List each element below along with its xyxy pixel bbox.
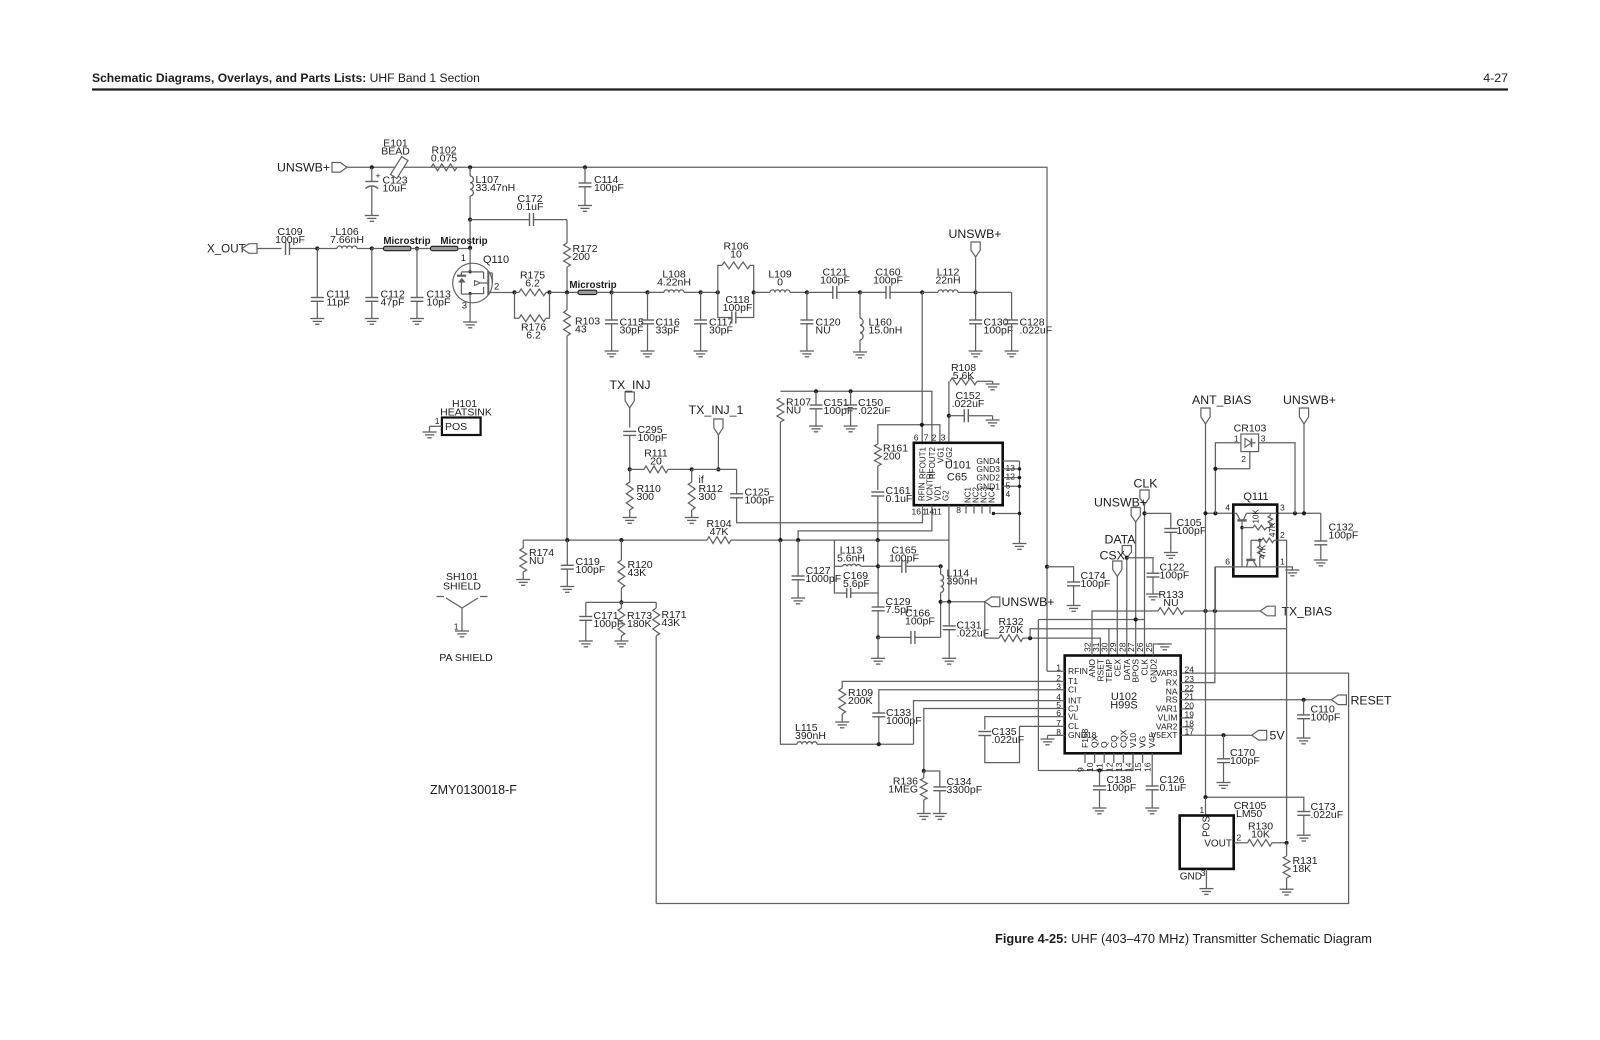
wire U102 pin1 connect <box>1047 670 1065 672</box>
svg-text:14: 14 <box>1124 762 1134 772</box>
svg-text:1000pF: 1000pF <box>886 715 922 727</box>
header text <box>92 71 1508 85</box>
svg-text:1: 1 <box>461 253 466 264</box>
wire bias rail <box>523 539 949 541</box>
svg-text:QX: QX <box>1090 735 1100 748</box>
junction C130/UNSWB+ <box>974 290 978 294</box>
svg-text:100pF: 100pF <box>824 405 854 417</box>
ground C152 <box>986 416 1000 426</box>
capacitor C161 <box>871 485 912 540</box>
resistor R106 (parallel top) <box>718 241 754 293</box>
net flag TX_BIAS <box>1260 605 1332 619</box>
ferrite bead E101 <box>381 138 410 179</box>
svg-text:9: 9 <box>1076 767 1086 772</box>
svg-text:0.075: 0.075 <box>431 152 457 164</box>
svg-text:5.6nH: 5.6nH <box>837 552 865 564</box>
junction R106/C118 right <box>752 290 756 294</box>
capacitor C138 <box>1093 771 1137 814</box>
junction rail/C161 <box>876 538 880 542</box>
wire V10 feed <box>1038 620 1133 771</box>
svg-text:47K: 47K <box>1259 544 1268 559</box>
resistor R102 <box>431 145 457 171</box>
svg-text:3300pF: 3300pF <box>947 784 983 796</box>
svg-text:VOUT: VOUT <box>1204 839 1232 850</box>
IC U101 C65 <box>912 433 1027 550</box>
svg-text:Schematic Diagrams, Overlays,: Schematic Diagrams, Overlays, and Parts … <box>92 71 480 85</box>
inductor L107 <box>470 167 515 219</box>
svg-text:5V: 5V <box>1270 729 1286 743</box>
resistor R136 <box>888 771 931 819</box>
junction CR103 left leg <box>1213 511 1217 515</box>
svg-text:NU: NU <box>529 555 544 567</box>
wire C160-L112 <box>922 291 938 293</box>
capacitor C172 <box>470 193 567 226</box>
svg-text:10: 10 <box>730 248 742 260</box>
wire C130-C128 <box>976 291 1012 293</box>
junction C174 <box>1045 565 1049 569</box>
wire ANT_BIAS/C173 node <box>1206 797 1304 811</box>
capacitor C127 <box>791 540 841 604</box>
capacitor C295 <box>623 424 667 469</box>
wire RX line <box>1181 567 1215 683</box>
wire TEMP drop <box>1108 629 1110 656</box>
capacitor C120 <box>800 292 841 356</box>
junction C113 <box>411 246 431 250</box>
svg-text:100pF: 100pF <box>889 552 919 564</box>
wire U102 pins 20 19 18 stubs <box>1181 709 1193 727</box>
junction C105 <box>1142 511 1146 515</box>
svg-text:UNSWB+: UNSWB+ <box>277 161 330 175</box>
junction rail/R120 <box>619 538 623 542</box>
junction C129/C166 <box>876 635 880 639</box>
svg-text:100pF: 100pF <box>1081 578 1111 590</box>
svg-text:POS: POS <box>445 421 467 433</box>
svg-text:DATA: DATA <box>1105 533 1137 547</box>
svg-text:30pF: 30pF <box>620 324 644 336</box>
svg-text:18K: 18K <box>1293 863 1312 875</box>
junction C131 top <box>947 600 951 604</box>
wire temp sense line <box>1030 629 1287 638</box>
svg-text:1: 1 <box>1280 557 1285 567</box>
svg-text:X_OUT: X_OUT <box>207 243 246 256</box>
svg-text:12: 12 <box>1104 762 1114 772</box>
inductor L115 <box>795 722 914 744</box>
wire BPOS rail <box>1038 619 1144 621</box>
svg-text:25: 25 <box>1144 642 1154 652</box>
net flag UNSWB+ (ctrl) <box>1094 496 1147 656</box>
junction R136 <box>922 769 926 773</box>
capacitor C166 <box>878 608 941 644</box>
svg-text:10pF: 10pF <box>427 296 451 308</box>
resistor R104 <box>706 518 731 544</box>
resistor R161 <box>874 443 908 491</box>
resistor R112 <box>685 469 723 523</box>
wire C117 to R106 node <box>701 291 718 293</box>
junction CR103 right leg <box>1293 511 1297 515</box>
resistor R175 <box>515 270 550 296</box>
svg-text:0.1uF: 0.1uF <box>517 201 544 213</box>
svg-text:43K: 43K <box>628 567 647 579</box>
capacitor C123 <box>365 167 408 221</box>
junction R102/L107 <box>468 165 472 169</box>
junction R106/C118 left <box>716 290 720 294</box>
svg-text:100pF: 100pF <box>576 564 606 576</box>
svg-text:180K: 180K <box>627 618 652 630</box>
inductor L109 <box>768 269 807 293</box>
IC U102 H99S <box>1056 642 1194 772</box>
svg-text:100pF: 100pF <box>1230 755 1260 767</box>
svg-text:3: 3 <box>941 433 946 443</box>
capacitor C173 <box>1297 801 1343 841</box>
svg-text:2: 2 <box>932 433 937 443</box>
svg-text:LM50: LM50 <box>1236 808 1262 820</box>
svg-text:200K: 200K <box>848 695 873 707</box>
svg-text:33.47nH: 33.47nH <box>476 182 516 194</box>
capacitor C116 <box>641 292 680 356</box>
svg-text:VG: VG <box>1138 736 1148 748</box>
svg-text:GND: GND <box>1180 872 1202 883</box>
svg-text:Figure 4-25: UHF (403–470 MHz): Figure 4-25: UHF (403–470 MHz) Transmitt… <box>995 931 1372 946</box>
wire Q111 pin6 <box>1215 567 1233 611</box>
capacitor C128 <box>1005 292 1053 356</box>
wire CI line <box>879 690 1065 713</box>
svg-text:C65: C65 <box>947 472 967 484</box>
svg-text:29: 29 <box>1108 642 1118 652</box>
capacitor C135 <box>978 726 1064 763</box>
svg-text:390nH: 390nH <box>795 730 826 742</box>
svg-text:VG2: VG2 <box>945 446 954 463</box>
junction CR103 pin2 <box>1213 467 1217 471</box>
junction C120 <box>805 290 809 294</box>
junction L107/C172 <box>468 218 472 222</box>
junction TX_INJ_1 <box>716 467 720 471</box>
capacitor C122 <box>1127 558 1189 600</box>
svg-text:7.66nH: 7.66nH <box>330 234 364 246</box>
wire U102 pin2 stub <box>1055 680 1065 682</box>
wire L107 to Q110 gate <box>469 220 471 248</box>
capacitor C132 <box>1314 513 1358 566</box>
junction C116 <box>645 290 649 294</box>
junction C152 <box>947 414 951 418</box>
svg-text:270K: 270K <box>999 624 1024 636</box>
junction Q110 gate node <box>468 246 472 250</box>
capacitor C150 <box>844 391 891 432</box>
capacitor C160 <box>873 267 922 299</box>
drawing number ZMY0130018-F <box>430 783 517 797</box>
capacitor C151 <box>809 391 853 432</box>
capacitor C171 <box>579 602 623 646</box>
capacitor C113 <box>410 249 451 325</box>
junction TX_BIAS/Q111 <box>1213 609 1217 613</box>
svg-text:200: 200 <box>573 251 591 263</box>
wire microstrip 2 to Q110 <box>458 248 470 250</box>
svg-text:300: 300 <box>637 491 655 503</box>
svg-text:30pF: 30pF <box>709 324 733 336</box>
svg-text:+: + <box>375 171 380 181</box>
net flag CSX <box>1100 549 1125 656</box>
junction C150 <box>849 389 853 393</box>
wire V5EXT to 5V <box>1181 734 1252 736</box>
svg-text:1: 1 <box>1234 434 1239 444</box>
svg-text:100pF: 100pF <box>638 432 668 444</box>
net flag UNSWB+ (right) <box>1283 393 1336 513</box>
svg-text:47pF: 47pF <box>381 296 405 308</box>
svg-text:Microstrip: Microstrip <box>440 236 487 247</box>
resistor R107 <box>777 397 811 541</box>
svg-text:10K: 10K <box>1251 828 1270 840</box>
svg-text:1: 1 <box>454 622 459 632</box>
svg-text:100pF: 100pF <box>1311 711 1341 723</box>
svg-text:CEX: CEX <box>1112 659 1122 677</box>
capacitor C114 <box>578 167 624 211</box>
svg-text:PA SHIELD: PA SHIELD <box>439 652 493 664</box>
capacitor C126 <box>1145 763 1186 814</box>
resistor R130 <box>1248 821 1287 847</box>
wire C120-C121 <box>807 291 833 293</box>
svg-text:5.6pF: 5.6pF <box>843 578 870 590</box>
svg-text:SHIELD: SHIELD <box>443 581 481 593</box>
wire VL line <box>985 717 1065 730</box>
wire C111 to L106 <box>317 248 337 250</box>
IC CR105 LM50 <box>1180 800 1267 883</box>
svg-text:20: 20 <box>650 455 662 467</box>
svg-text:TX_INJ_1: TX_INJ_1 <box>689 403 744 417</box>
svg-text:10uF: 10uF <box>383 182 407 194</box>
svg-text:43: 43 <box>575 323 587 335</box>
resistor R131 <box>1280 843 1318 895</box>
svg-text:UNSWB+: UNSWB+ <box>1283 393 1336 407</box>
svg-text:RFIN: RFIN <box>1068 666 1088 676</box>
wire Q110 drain out <box>492 292 514 294</box>
junction R175 left <box>512 290 516 294</box>
svg-text:NU: NU <box>1163 597 1178 609</box>
capacitor C133 <box>872 707 921 744</box>
svg-text:100pF: 100pF <box>984 324 1014 336</box>
junction C170 <box>1221 733 1225 737</box>
junction C122 <box>1125 556 1129 560</box>
svg-text:100pF: 100pF <box>1177 525 1207 537</box>
resistor R133 <box>1158 589 1260 614</box>
wire CR105 VOUT <box>1234 833 1248 843</box>
inductor L113 <box>834 545 878 567</box>
header rule <box>92 88 1508 90</box>
ground R108 <box>986 381 1000 390</box>
wire Q111 pin1 ground <box>1277 567 1299 576</box>
svg-text:VL: VL <box>1068 711 1079 721</box>
wire RS to RESET <box>1181 699 1332 701</box>
transistor array Q111 <box>1225 491 1285 576</box>
wire bias rail Q111 <box>1206 512 1321 514</box>
svg-text:VAR3: VAR3 <box>1156 668 1178 678</box>
svg-text:NU: NU <box>816 324 831 336</box>
svg-text:.022uF: .022uF <box>952 398 985 410</box>
capacitor C105 <box>1145 513 1207 558</box>
ground C166 left <box>871 637 885 664</box>
svg-text:4.22nH: 4.22nH <box>657 276 691 288</box>
svg-text:100pF: 100pF <box>820 274 850 286</box>
junction BPOS <box>1134 617 1138 621</box>
svg-text:.022uF: .022uF <box>858 405 891 417</box>
svg-text:.022uF: .022uF <box>992 734 1025 746</box>
wire R175 to microstrip 3 <box>550 291 579 293</box>
wire R111 node to C125 <box>692 468 737 470</box>
svg-text:2: 2 <box>494 282 499 293</box>
wire CR105 pin3 ground <box>1199 869 1213 895</box>
junction R161 top crossing <box>920 423 924 427</box>
svg-text:GND2: GND2 <box>1148 659 1158 683</box>
resistor R108 <box>949 362 993 443</box>
svg-text:3: 3 <box>1261 434 1266 444</box>
diode CR103 <box>1234 423 1267 465</box>
svg-text:F168: F168 <box>1080 728 1090 748</box>
svg-text:TX_BIAS: TX_BIAS <box>1282 605 1333 619</box>
svg-text:CQ: CQ <box>1109 735 1119 748</box>
svg-text:16: 16 <box>1143 762 1153 772</box>
wire INT riser <box>914 701 1065 745</box>
microstrip 2 <box>431 236 488 251</box>
svg-text:15: 15 <box>1133 762 1143 772</box>
svg-text:100pF: 100pF <box>594 182 624 194</box>
resistor R172 <box>564 220 598 293</box>
svg-text:11: 11 <box>933 507 942 517</box>
svg-text:33pF: 33pF <box>656 324 680 336</box>
net flag UNSWB+ (mid) <box>985 595 1055 609</box>
inductor L106 <box>330 226 372 249</box>
svg-text:V10: V10 <box>1128 733 1138 748</box>
svg-text:NU: NU <box>786 404 801 416</box>
svg-text:POS: POS <box>1202 816 1213 837</box>
capacitor C125 <box>730 469 774 506</box>
svg-text:3: 3 <box>462 301 467 312</box>
svg-text:10: 10 <box>1085 762 1095 772</box>
wire U102 pin22 stub <box>1181 691 1193 693</box>
inductor L108 <box>657 269 701 293</box>
resistor R176 (parallel) <box>515 292 550 341</box>
svg-text:2: 2 <box>1241 454 1246 464</box>
junction ANT_BIAS rail <box>1203 511 1207 515</box>
svg-text:0.1uF: 0.1uF <box>886 493 913 505</box>
svg-text:CQX: CQX <box>1118 729 1128 748</box>
capacitor C109 <box>275 226 317 255</box>
resistor R174 <box>516 540 554 585</box>
svg-text:100pF: 100pF <box>723 302 753 314</box>
net flag UNSWB+ (top left) <box>277 161 372 175</box>
svg-text:Q110: Q110 <box>483 254 509 266</box>
svg-text:.022uF: .022uF <box>1020 324 1053 336</box>
svg-text:4: 4 <box>1006 489 1011 499</box>
svg-text:47K: 47K <box>1268 522 1277 537</box>
inductor L114 <box>941 566 978 602</box>
transistor Q110 <box>453 248 509 312</box>
junction C112 <box>370 246 374 250</box>
wire R132 to RSET <box>1030 638 1100 655</box>
junction R112 top <box>690 467 694 471</box>
svg-text:2: 2 <box>1237 833 1242 843</box>
capacitor C170 <box>1217 735 1260 788</box>
junction rail/R103 <box>565 538 569 542</box>
shield SH101 <box>437 571 494 664</box>
net flag X_OUT <box>207 243 282 256</box>
capacitor C117 <box>694 292 734 356</box>
resistor R110 <box>623 469 661 523</box>
svg-text:10K: 10K <box>1252 509 1261 524</box>
junction C138 <box>1097 768 1101 772</box>
net flag ANT_BIAS <box>1192 393 1251 797</box>
microstrip 1 <box>383 236 430 251</box>
svg-text:0: 0 <box>777 276 783 288</box>
svg-text:CLK: CLK <box>1134 477 1159 491</box>
junction L114 top <box>939 564 943 568</box>
junction C111 <box>315 246 319 250</box>
junction rail/R107 <box>778 538 782 542</box>
svg-text:11pF: 11pF <box>327 296 350 308</box>
svg-text:6.2: 6.2 <box>525 277 540 289</box>
capacitor C111 <box>310 249 350 325</box>
svg-text:100pF: 100pF <box>1160 569 1190 581</box>
wire L113 loop <box>834 540 878 593</box>
junction L113 right <box>876 564 880 568</box>
wire C115-C116 <box>612 291 648 293</box>
net flag TX_INJ_1 <box>689 403 744 469</box>
svg-text:1MEG: 1MEG <box>888 783 918 795</box>
junction R172/R103 node <box>565 290 569 294</box>
svg-text:NC4: NC4 <box>988 486 997 503</box>
svg-text:100pF: 100pF <box>275 234 305 246</box>
net flag UNSWB+ (above L112) <box>949 227 1002 292</box>
svg-text:Microstrip: Microstrip <box>383 236 430 247</box>
capacitor C165 <box>878 545 941 573</box>
svg-text:16: 16 <box>912 507 922 517</box>
net flag TX_INJ <box>610 378 651 428</box>
junction UNSWB+ rail <box>1302 511 1306 515</box>
junction C110 <box>1302 698 1306 702</box>
svg-text:1000pF: 1000pF <box>806 573 842 585</box>
capacitor C129 <box>872 593 913 637</box>
svg-text:4-27: 4-27 <box>1483 71 1508 85</box>
inductor L160 <box>853 292 902 357</box>
junction C117 <box>699 290 703 294</box>
svg-text:0.1uF: 0.1uF <box>1160 782 1187 794</box>
wire microstrip3 to C115 <box>597 291 612 293</box>
wire L115 line <box>780 540 797 744</box>
junction R175 right <box>547 290 551 294</box>
svg-text:100pF: 100pF <box>1107 782 1137 794</box>
net flag DATA <box>1105 533 1137 656</box>
svg-text:100pF: 100pF <box>745 494 775 506</box>
heatsink H101 <box>423 398 492 438</box>
svg-text:1: 1 <box>435 416 440 426</box>
wire C116-L108 <box>648 291 665 293</box>
wire CR103 pin1 <box>1215 443 1241 514</box>
svg-text:8: 8 <box>956 505 961 515</box>
svg-text:RESET: RESET <box>1351 694 1392 708</box>
junction TX_BIAS/ANT_BIAS <box>1203 609 1207 613</box>
resistor R173 <box>614 602 652 646</box>
junction R132 branch <box>1028 636 1032 640</box>
capacitor C134 <box>924 771 982 819</box>
capacitor C118 (parallel bottom) <box>718 292 754 323</box>
svg-text:22nH: 22nH <box>935 274 960 286</box>
junction R130/R131 <box>1285 841 1289 845</box>
svg-text:Q: Q <box>1099 741 1109 748</box>
wire L160-C160 <box>860 291 886 293</box>
wire RFOUT1 drop to U101 pin6 <box>921 292 923 442</box>
svg-text:CI: CI <box>1068 685 1077 695</box>
capacitor C169 <box>843 570 870 598</box>
resistor R132 <box>985 602 1030 642</box>
svg-text:100pF: 100pF <box>905 615 935 627</box>
wire T1 line <box>842 681 1055 688</box>
